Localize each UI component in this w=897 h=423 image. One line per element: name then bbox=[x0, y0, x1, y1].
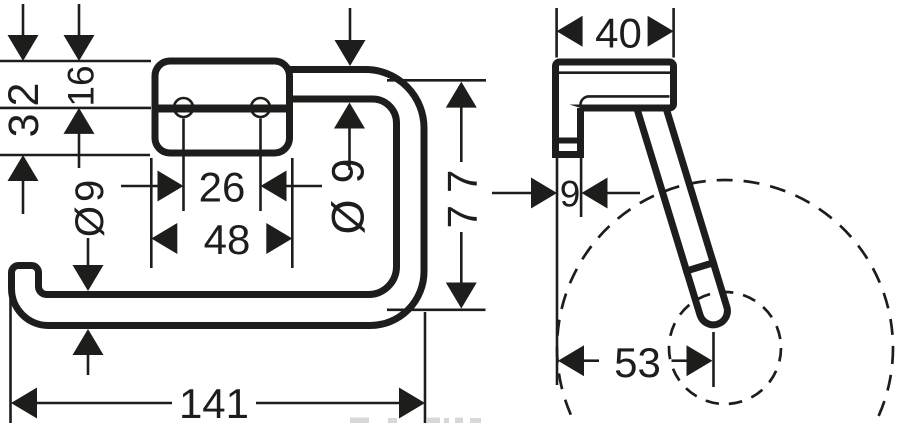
roll holder tube outline (arm + right bend + bottom rail + hook) bbox=[12, 70, 425, 326]
svg-text:26: 26 bbox=[199, 164, 246, 211]
dimension 48 left arrow bbox=[151, 223, 177, 254]
dimension 9 extension line right bbox=[580, 158, 583, 217]
dimension 16 upper arrow bbox=[78, 4, 81, 36]
dimension 77 bottom reference line bbox=[387, 308, 486, 311]
svg-text:53: 53 bbox=[614, 339, 661, 386]
dimension 40 right arrow bbox=[648, 16, 674, 47]
svg-text:Ø9: Ø9 bbox=[68, 176, 112, 237]
dimension O9 tube upper arrow bbox=[349, 8, 352, 41]
svg-text:Ø9: Ø9 bbox=[323, 142, 374, 234]
wall plate leg groove line bbox=[553, 138, 583, 144]
svg-text:40: 40 bbox=[595, 10, 642, 57]
dimension 77 top reference line bbox=[387, 79, 486, 82]
svg-text:9: 9 bbox=[560, 174, 581, 215]
dimension 141 left arrow and line bbox=[11, 388, 37, 419]
svg-text:48: 48 bbox=[204, 216, 251, 263]
dimension 32 lower arrow bbox=[8, 155, 39, 181]
dimension 40 extension line right bbox=[672, 8, 675, 58]
dimension 141 extension line left bbox=[9, 281, 12, 423]
bracket fillet detail line bbox=[581, 96, 670, 105]
dimension 26 extension line right bbox=[259, 119, 262, 212]
dimension 26 left arrow and tail bbox=[121, 185, 158, 188]
wall bracket inner edge line bbox=[559, 71, 670, 74]
dimension 26 extension line left bbox=[182, 119, 185, 212]
paper roll core dashed circle bbox=[669, 292, 781, 404]
svg-text:141: 141 bbox=[179, 380, 249, 423]
wall bracket block outline bbox=[556, 62, 674, 108]
dimension 40 extension line left bbox=[555, 8, 558, 58]
mounting hole right (hidden circle) bbox=[251, 98, 270, 117]
dimension 48 right arrow bbox=[266, 223, 292, 254]
svg-text:77: 77 bbox=[439, 158, 486, 229]
dimension 9 right arrow and tail bbox=[582, 178, 608, 209]
arm joint crossbar bbox=[683, 262, 716, 272]
svg-text:16: 16 bbox=[61, 65, 102, 106]
dimension 48 extension line right bbox=[291, 158, 294, 268]
svg-text:32: 32 bbox=[0, 76, 48, 138]
wall plate outline bbox=[155, 61, 290, 153]
hook arm (tilted) bbox=[634, 101, 734, 329]
dimension O9 hook lower arrow bbox=[73, 329, 104, 355]
dimension 141 extension line right bbox=[424, 312, 427, 423]
reference line middle (y=107.9) bbox=[0, 107, 151, 110]
arm tube outline bbox=[637, 102, 730, 328]
dimension 53 left arrow and tail bbox=[558, 345, 584, 376]
dimension 141 right arrow and line bbox=[256, 402, 400, 405]
dimension 53 pin centre tick bbox=[712, 332, 715, 387]
dimension 77 lower arrow bbox=[446, 283, 477, 309]
dimension 77 upper arrow bbox=[446, 82, 477, 108]
wall line (extension for 9 and 53) bbox=[556, 158, 559, 385]
dimension O9 tube lower arrow bbox=[334, 103, 365, 129]
wall plate leg outline bbox=[556, 100, 581, 155]
dimension 9 left arrow and tail bbox=[492, 192, 532, 195]
dimension O9 hook upper arrow bbox=[87, 238, 90, 266]
wall plate cover edge line bbox=[153, 105, 292, 113]
dimension 53 right arrow and tail bbox=[672, 359, 688, 362]
paper roll outer dashed circle bbox=[557, 180, 893, 423]
dimension 26 right arrow and tail bbox=[261, 171, 287, 202]
reference line top (y=61) bbox=[0, 60, 151, 63]
dimension 48 extension line left bbox=[150, 158, 153, 268]
dimension 32 upper arrow bbox=[22, 4, 25, 36]
mounting hole left (hidden circle) bbox=[174, 98, 193, 117]
cropped watermark letter tops bbox=[350, 418, 481, 423]
dimension 40 left arrow bbox=[557, 16, 583, 47]
dimension 16 lower arrow bbox=[64, 108, 95, 134]
reference line lower (y=155) bbox=[0, 154, 150, 157]
